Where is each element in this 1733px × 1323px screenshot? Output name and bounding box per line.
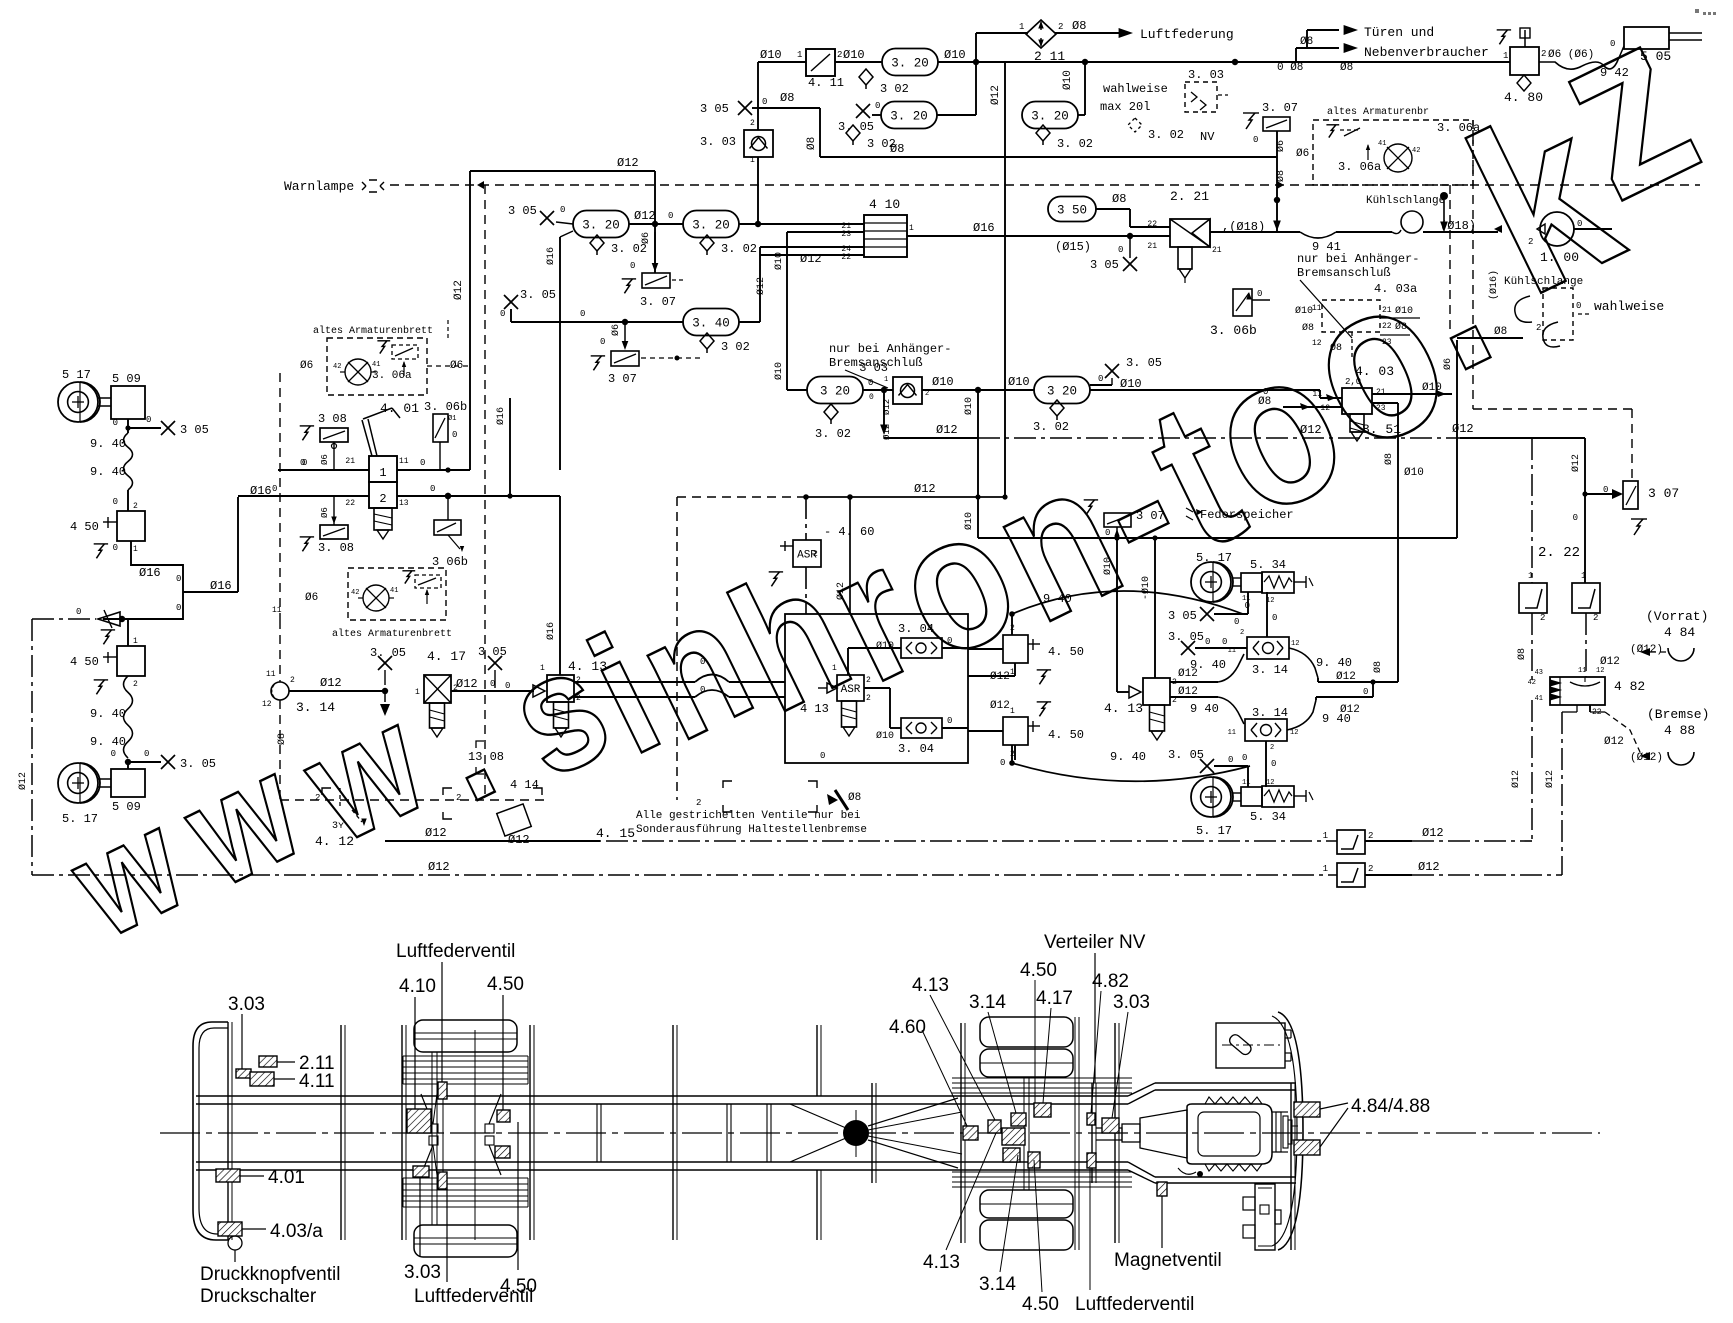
svg-text:4.13: 4.13 <box>923 1252 960 1273</box>
svg-text:3. 06a: 3. 06a <box>372 370 412 382</box>
rear wheels bottom inner <box>980 1190 1073 1218</box>
test point 3.05 above 4.17row <box>378 656 392 670</box>
svg-text:,(Ø18): ,(Ø18) <box>1222 220 1265 234</box>
svg-text:nur bei Anhänger-: nur bei Anhänger- <box>829 342 951 356</box>
vertical Ø12 x850 <box>849 497 851 614</box>
svg-text:Ø12: Ø12 <box>1452 422 1474 436</box>
svg-text:5. 34: 5. 34 <box>1250 810 1286 824</box>
svg-text:Ø6: Ø6 <box>320 507 330 518</box>
svg-text:3. 04: 3. 04 <box>898 622 934 636</box>
svg-text:9 40: 9 40 <box>1043 592 1072 606</box>
svg-text:4.84/4.88: 4.84/4.88 <box>1351 1096 1430 1117</box>
wire Ø12 top loop y171 <box>470 170 655 172</box>
svg-text:41: 41 <box>372 361 380 369</box>
svg-text:2: 2 <box>1368 864 1373 874</box>
svg-text:1: 1 <box>133 637 138 646</box>
regulator 3.20 top row 2 <box>881 102 937 129</box>
junction + check arrow left edge <box>119 616 125 622</box>
svg-text:4. 01: 4. 01 <box>380 401 419 416</box>
svg-text:Druckschalter: Druckschalter <box>200 1286 317 1307</box>
wire row4 continues right <box>1090 389 1320 391</box>
cross member x228 <box>227 1022 229 1240</box>
hatch 4.82 small mark <box>1087 1113 1095 1125</box>
hatch 4.11 mark <box>236 1069 251 1078</box>
svg-text:0: 0 <box>113 497 118 507</box>
svg-text:3. 03: 3. 03 <box>1188 68 1224 82</box>
svg-text:Ø12: Ø12 <box>990 85 1002 105</box>
svg-text:1: 1 <box>750 156 755 165</box>
svg-text:Ø12: Ø12 <box>1178 686 1198 698</box>
front wheel bottom <box>414 1225 517 1257</box>
svg-text:3. 05: 3. 05 <box>838 120 874 134</box>
svg-text:1: 1 <box>1323 831 1328 841</box>
svg-text:2: 2 <box>133 680 138 689</box>
svg-text:Ø6: Ø6 <box>1296 148 1309 160</box>
svg-text:Ø6: Ø6 <box>305 592 318 604</box>
svg-text:2: 2 <box>696 798 701 808</box>
engine gearbox assembly <box>1187 1104 1272 1164</box>
pressure limiter 4.50 left lower <box>127 619 129 646</box>
svg-text:Ø12: Ø12 <box>17 772 29 790</box>
hose arc 9.40 upper long <box>1012 591 1243 614</box>
svg-text:2: 2 <box>133 502 138 511</box>
bus dash-dot y875 <box>32 874 1337 876</box>
svg-text:Ø12: Ø12 <box>1418 860 1440 874</box>
svg-text:Ø12: Ø12 <box>634 209 656 223</box>
test 3.05 at 5.34 upper <box>1200 607 1214 621</box>
hatch 4.50 upper <box>497 1110 510 1122</box>
svg-text:1: 1 <box>379 466 386 480</box>
vertical x1117 down to 4.13no3 <box>1116 538 1118 692</box>
hatch 4.13 lower mark <box>1003 1148 1020 1162</box>
svg-text:2: 2 <box>837 50 842 60</box>
valve 3.08 upper <box>320 428 348 442</box>
node junction x1235 y62 <box>1232 59 1238 65</box>
svg-text:Ø8: Ø8 <box>1275 170 1287 182</box>
solid line y841 left segment <box>385 840 600 842</box>
svg-text:3. 07: 3. 07 <box>1262 101 1298 115</box>
svg-text:4 50: 4 50 <box>70 655 99 669</box>
device 5.05 top-right box <box>1624 27 1669 49</box>
rear bumper right <box>1278 1012 1303 1250</box>
exhaust detail under engine <box>1178 1168 1196 1174</box>
cross member x817 <box>816 1025 818 1096</box>
svg-text:Ø12: Ø12 <box>914 482 936 496</box>
hatch 2.11 mark <box>259 1056 277 1067</box>
hand brake valve 4.82 <box>1550 677 1605 705</box>
svg-text:0: 0 <box>1222 637 1227 647</box>
svg-text:11: 11 <box>1228 729 1236 737</box>
svg-text:1: 1 <box>133 545 138 554</box>
svg-text:3. 05: 3. 05 <box>370 646 406 660</box>
wire Ø8 into kuhlschlange <box>1457 337 1523 339</box>
dashed panel box lower altes Armaturenbrett <box>348 568 446 620</box>
wire y497 Ø12 and dashed region edge <box>677 496 806 498</box>
svg-text:Ø12: Ø12 <box>755 277 767 295</box>
svg-text:0: 0 <box>560 205 565 215</box>
svg-text:Ø12: Ø12 <box>835 582 847 600</box>
svg-text:Ø10: Ø10 <box>1395 305 1413 317</box>
dashed verticals right panel <box>1449 185 1451 330</box>
compressor 1.00 circle <box>1540 212 1574 246</box>
wire y538 long <box>978 537 1457 539</box>
svg-text:3. 20: 3. 20 <box>891 57 929 71</box>
svg-text:3 07: 3 07 <box>1648 486 1679 501</box>
svg-text:Ø12: Ø12 <box>428 860 450 874</box>
chassis main rail bottom <box>196 1161 1128 1163</box>
wires around 4.03 <box>1090 389 1320 391</box>
svg-text:3. 02: 3. 02 <box>1057 137 1093 151</box>
vertical x1155 down <box>1154 538 1156 678</box>
wire 2.21 output (Ø18) line y232 <box>1210 231 1300 233</box>
svg-text:2. 21: 2. 21 <box>1170 189 1209 204</box>
branch x884 down with arrow <box>881 387 887 393</box>
junction bus y496 right <box>445 493 451 499</box>
svg-text:0: 0 <box>113 543 118 553</box>
svg-text:12: 12 <box>1312 339 1322 348</box>
svg-text:Ø12: Ø12 <box>1510 770 1522 788</box>
svg-text:3. 14: 3. 14 <box>1252 663 1288 677</box>
valve 3.07 top-center <box>1263 117 1290 131</box>
hatch 4.10 main <box>407 1109 431 1133</box>
svg-text:23: 23 <box>1376 404 1386 413</box>
svg-text:Ø12: Ø12 <box>1422 826 1444 840</box>
vertical Ø10 x978 <box>977 390 979 538</box>
svg-text:Ø10: Ø10 <box>963 512 975 530</box>
svg-text:12: 12 <box>1266 779 1274 787</box>
cross member x530 <box>529 1025 531 1240</box>
wires below 2.22 <box>1531 613 1533 683</box>
svg-text:12: 12 <box>1290 729 1298 737</box>
front wheel top <box>414 1020 517 1052</box>
fifth wheel pin <box>843 1120 869 1146</box>
svg-text:0: 0 <box>1245 601 1250 611</box>
svg-text:42: 42 <box>333 363 341 371</box>
svg-text:9. 40: 9. 40 <box>90 465 126 479</box>
svg-text:0: 0 <box>1577 219 1582 229</box>
svg-text:4.50: 4.50 <box>1022 1294 1059 1315</box>
svg-text:Ø12: Ø12 <box>617 156 639 170</box>
svg-text:3. 02: 3. 02 <box>815 427 851 441</box>
svg-text:1: 1 <box>797 50 802 60</box>
check into 1.00 <box>1494 225 1502 233</box>
svg-text:Alle gestrichelten Ventile nur: Alle gestrichelten Ventile nur bei <box>636 810 861 822</box>
svg-text:Ø12: Ø12 <box>1300 423 1322 437</box>
test point 3.05 row2 <box>540 211 554 225</box>
coupling head 3.14 left on dashed line <box>271 682 289 700</box>
svg-text:2: 2 <box>1270 744 1274 752</box>
svg-text:Kühlschlange: Kühlschlange <box>1366 195 1445 207</box>
svg-text:9. 40: 9. 40 <box>1110 750 1146 764</box>
test point 3.05 below Ø16 <box>1129 236 1131 258</box>
regulator 3.40 <box>683 309 739 336</box>
svg-text:altes Armaturenbr: altes Armaturenbr <box>1327 106 1429 118</box>
svg-text:Ø12: Ø12 <box>1570 454 1582 472</box>
svg-text:Kühlschlange: Kühlschlange <box>1504 276 1583 288</box>
cross member x1115 <box>1114 1023 1116 1243</box>
vertical dash-dot Ø12 far left <box>31 619 33 875</box>
test point 3.05 right of 4.17 <box>488 656 502 670</box>
switch symbol lower panel <box>405 571 412 584</box>
wires into 4.10 left pins <box>787 231 864 233</box>
svg-text:1: 1 <box>884 376 888 384</box>
svg-text:0: 0 <box>1271 759 1276 769</box>
svg-text:4.17: 4.17 <box>1036 988 1073 1009</box>
hose arcs at 3.14 upper <box>1218 654 1244 682</box>
svg-text:Ø16: Ø16 <box>973 221 995 235</box>
svg-text:4. 17: 4. 17 <box>427 649 466 664</box>
svg-text:3. 05: 3. 05 <box>1168 630 1204 644</box>
svg-text:Ø12: Ø12 <box>1340 704 1360 716</box>
svg-text:4.01: 4.01 <box>268 1167 305 1188</box>
svg-text:(Bremse): (Bremse) <box>1647 707 1709 722</box>
svg-text:altes Armaturenbrett: altes Armaturenbrett <box>313 325 433 337</box>
svg-text:Ø8: Ø8 <box>1383 453 1395 465</box>
verticals below 4.82 <box>1531 700 1533 841</box>
svg-text:Ø12: Ø12 <box>453 280 465 300</box>
wire 4.82 pin22 to Bremse <box>1589 705 1591 712</box>
front suspension stack top <box>403 1055 528 1057</box>
svg-text:4 13: 4 13 <box>800 702 829 716</box>
inlet arrow 4.13 no1 <box>533 685 545 697</box>
black junction dot below panel <box>1440 192 1448 200</box>
svg-text:1: 1 <box>1503 51 1508 61</box>
svg-text:4.11: 4.11 <box>299 1071 335 1092</box>
svg-text:Luftfederventil: Luftfederventil <box>396 941 515 962</box>
wire y438 dash-dot to right <box>884 437 978 439</box>
leader Luftfederventil bottom-left <box>442 1099 444 1172</box>
svg-text:Ø8: Ø8 <box>806 137 818 150</box>
dashed big region rectangle left <box>279 373 281 620</box>
svg-text:Ø6: Ø6 <box>300 360 313 372</box>
svg-text:Ø10: Ø10 <box>773 362 785 380</box>
svg-text:9. 40: 9. 40 <box>1316 656 1352 670</box>
drain 3.02 row2a <box>590 235 604 251</box>
svg-text:0: 0 <box>144 749 149 759</box>
rear wheels top outer <box>980 1017 1073 1047</box>
svg-text:41: 41 <box>1378 140 1386 148</box>
svg-text:11: 11 <box>1312 304 1322 313</box>
svg-text:13 08: 13 08 <box>468 750 504 764</box>
svg-text:ASR: ASR <box>841 684 861 696</box>
valve 3.07 center (park) <box>1104 513 1131 527</box>
svg-text:2: 2 <box>813 550 818 559</box>
svg-text:2: 2 <box>866 694 871 703</box>
svg-text:0: 0 <box>1263 387 1268 397</box>
label Federspeicher <box>1186 508 1193 520</box>
svg-text:0: 0 <box>176 603 181 613</box>
check valve pair NV dashed box <box>1185 82 1217 112</box>
svg-text:2: 2 <box>1240 629 1244 637</box>
svg-text:nur bei Anhänger-: nur bei Anhänger- <box>1297 252 1419 266</box>
svg-text:Ø10: Ø10 <box>1295 305 1313 317</box>
radiator bottom right <box>1255 1184 1275 1250</box>
svg-text:Druckknopfventil: Druckknopfventil <box>200 1264 340 1285</box>
wire to 3.14a <box>1266 592 1268 637</box>
svg-text:Luftfederung: Luftfederung <box>1140 27 1234 42</box>
hatch 4.17 mark <box>1034 1103 1051 1117</box>
svg-text:2: 2 <box>576 676 581 685</box>
hatch 4.13 small mark <box>988 1120 1001 1133</box>
svg-text:Ø12: Ø12 <box>1604 736 1624 748</box>
svg-text:Ø10: Ø10 <box>1404 467 1424 479</box>
svg-text:2: 2 <box>1541 49 1546 59</box>
leader magnetventil <box>1161 1196 1163 1248</box>
svg-text:13: 13 <box>399 499 409 508</box>
quick release 4.50 right lower <box>968 730 1003 732</box>
svg-text:3. 20: 3. 20 <box>582 219 620 233</box>
svg-text:3. 03: 3. 03 <box>700 135 736 149</box>
wire bus y496 Ø16 (to section 2) <box>238 495 369 497</box>
svg-text:5 05: 5 05 <box>1640 49 1671 64</box>
svg-text:3. 40: 3. 40 <box>692 317 730 331</box>
vertical x1532 dash <box>1531 438 1533 583</box>
svg-text:1: 1 <box>540 664 545 673</box>
svg-text:0: 0 <box>111 749 116 759</box>
svg-text:0: 0 <box>146 415 151 425</box>
bus dash-dot y841 <box>390 840 1337 842</box>
svg-text:0: 0 <box>630 261 635 271</box>
test 3.05 left of 3.14a <box>1181 641 1195 655</box>
svg-text:0: 0 <box>700 657 705 667</box>
svg-text:11: 11 <box>266 670 276 679</box>
svg-text:4.03/a: 4.03/a <box>270 1221 323 1242</box>
svg-text:4.10: 4.10 <box>399 976 436 997</box>
svg-text:12: 12 <box>1320 404 1330 413</box>
svg-text:22: 22 <box>1147 220 1157 229</box>
svg-text:4 50: 4 50 <box>70 520 99 534</box>
test point 3.05 row3 <box>504 295 518 309</box>
svg-text:0: 0 <box>500 309 505 319</box>
svg-text:4 88: 4 88 <box>1664 723 1695 738</box>
svg-text:0: 0 <box>1205 637 1210 647</box>
svg-text:Ø12: Ø12 <box>508 833 530 847</box>
hand brake unit section 1 <box>369 456 397 482</box>
hatch 3.14 rear lower mark <box>1028 1152 1040 1168</box>
wires 4.13no3 to 3.14 hoses <box>1170 681 1218 683</box>
check valve 3.03 row4 <box>863 389 893 391</box>
svg-text:Ø12: Ø12 <box>1544 770 1556 788</box>
svg-text:(Vorrat): (Vorrat) <box>1646 609 1708 624</box>
hatch 4.01 mark <box>216 1169 240 1182</box>
svg-text:Ø6: Ø6 <box>640 232 652 244</box>
svg-text:0: 0 <box>452 430 457 440</box>
tick marks on warning bus <box>477 181 484 189</box>
svg-text:2: 2 <box>576 694 581 703</box>
svg-text:3. 02: 3. 02 <box>721 242 757 256</box>
switch symbol upper panel <box>380 341 387 354</box>
svg-text:0: 0 <box>272 484 277 494</box>
wire bus y470 (to section 1) <box>278 469 369 471</box>
valve 3.07 right <box>1623 481 1638 509</box>
wire below tank1 + test 3.05 <box>127 419 129 433</box>
rib x874 <box>871 1083 873 1183</box>
svg-text:1: 1 <box>415 688 420 697</box>
svg-text:Ø10: Ø10 <box>1120 377 1142 391</box>
drain 3.02 row4 <box>824 404 838 420</box>
drain 3.02 of 3.20 top2 <box>846 125 860 141</box>
svg-text:3ʏ: 3ʏ <box>332 821 344 832</box>
svg-text:Ø6: Ø6 <box>1275 140 1287 152</box>
dashed rect right outer <box>1473 408 1632 410</box>
druckknopf circle <box>228 1236 242 1250</box>
hatch 4.84/4.88 marks + leaders <box>1294 1102 1320 1117</box>
hatch luftfeder rear mark <box>1087 1153 1096 1168</box>
hatch 3.03 lower <box>413 1166 429 1177</box>
svg-text:Ø16: Ø16 <box>210 579 232 593</box>
svg-text:0: 0 <box>1118 245 1123 255</box>
svg-text:(Ø15): (Ø15) <box>1055 240 1091 254</box>
tilted valve square 4.12 area <box>497 804 532 836</box>
svg-text:Ø8: Ø8 <box>1494 326 1507 338</box>
svg-text:0: 0 <box>580 309 585 319</box>
svg-text:3. 14: 3. 14 <box>296 700 335 715</box>
svg-text:0: 0 <box>762 97 767 107</box>
svg-text:12: 12 <box>1596 667 1604 675</box>
svg-text:3 20: 3 20 <box>1047 385 1077 399</box>
hatch 4.60 mark <box>963 1126 978 1140</box>
svg-text:Ø10: Ø10 <box>1008 375 1030 389</box>
leader 3.03 bottom <box>419 1177 421 1256</box>
svg-text:Ø12: Ø12 <box>1336 671 1356 683</box>
svg-text:0: 0 <box>1253 135 1258 145</box>
drain valve 3.02 of 3.20 top1 <box>859 69 873 85</box>
svg-text:Ø12: Ø12 <box>990 671 1010 683</box>
regulator 3.20 row4 left <box>787 389 807 391</box>
svg-text:0: 0 <box>430 484 435 494</box>
svg-text:1: 1 <box>909 224 914 233</box>
svg-text:Ø10: Ø10 <box>932 375 954 389</box>
svg-text:9. 40: 9. 40 <box>90 437 126 451</box>
svg-text:1: 1 <box>1528 571 1533 581</box>
svg-text:0: 0 <box>1272 613 1277 623</box>
svg-text:12: 12 <box>1291 640 1299 648</box>
svg-text:max 20l: max 20l <box>1100 100 1150 114</box>
svg-text:4.13: 4.13 <box>912 975 949 996</box>
svg-text:1: 1 <box>1323 864 1328 874</box>
svg-text:3. 05: 3. 05 <box>180 757 216 771</box>
svg-text:Ø10: Ø10 <box>1102 557 1114 575</box>
svg-text:3. 02: 3. 02 <box>1033 420 1069 434</box>
svg-text:3 07: 3 07 <box>608 372 637 386</box>
battery box top right <box>1216 1023 1285 1068</box>
svg-text:3. 06a: 3. 06a <box>1437 121 1480 135</box>
hatch 4.50 lower <box>495 1146 510 1158</box>
svg-text:1: 1 <box>1581 571 1586 581</box>
svg-text:Ø6: Ø6 <box>1442 358 1454 370</box>
rear suspension bars bottom <box>952 1171 1132 1173</box>
svg-text:3 05: 3 05 <box>1168 609 1197 623</box>
test point 3.05 x866 <box>856 104 870 118</box>
svg-text:11: 11 <box>399 457 409 466</box>
svg-text:Ø10: Ø10 <box>944 48 966 62</box>
svg-text:Ø8: Ø8 <box>276 733 288 745</box>
hand brake unit section 2 <box>369 482 397 508</box>
cross member x673 <box>672 1025 674 1240</box>
svg-text:Ø12: Ø12 <box>882 399 892 415</box>
valve 3.07 row2 with arrow from junction <box>654 232 656 266</box>
arrows Tueren und Nebenverbraucher <box>1295 48 1297 62</box>
drain 3.02 row5 <box>1050 400 1064 416</box>
rear wheels bottom outer <box>980 1220 1073 1250</box>
svg-text:0: 0 <box>1098 374 1103 384</box>
svg-text:42: 42 <box>1528 679 1536 687</box>
spring brake 5.34 lower + gauge 5.17 <box>1191 777 1231 817</box>
svg-text:3.14: 3.14 <box>979 1274 1016 1295</box>
hose arc 9.40 lower long <box>1012 763 1250 781</box>
test 3.05 at 5.34 lower <box>1200 759 1214 773</box>
cross member x402 <box>401 1025 403 1240</box>
